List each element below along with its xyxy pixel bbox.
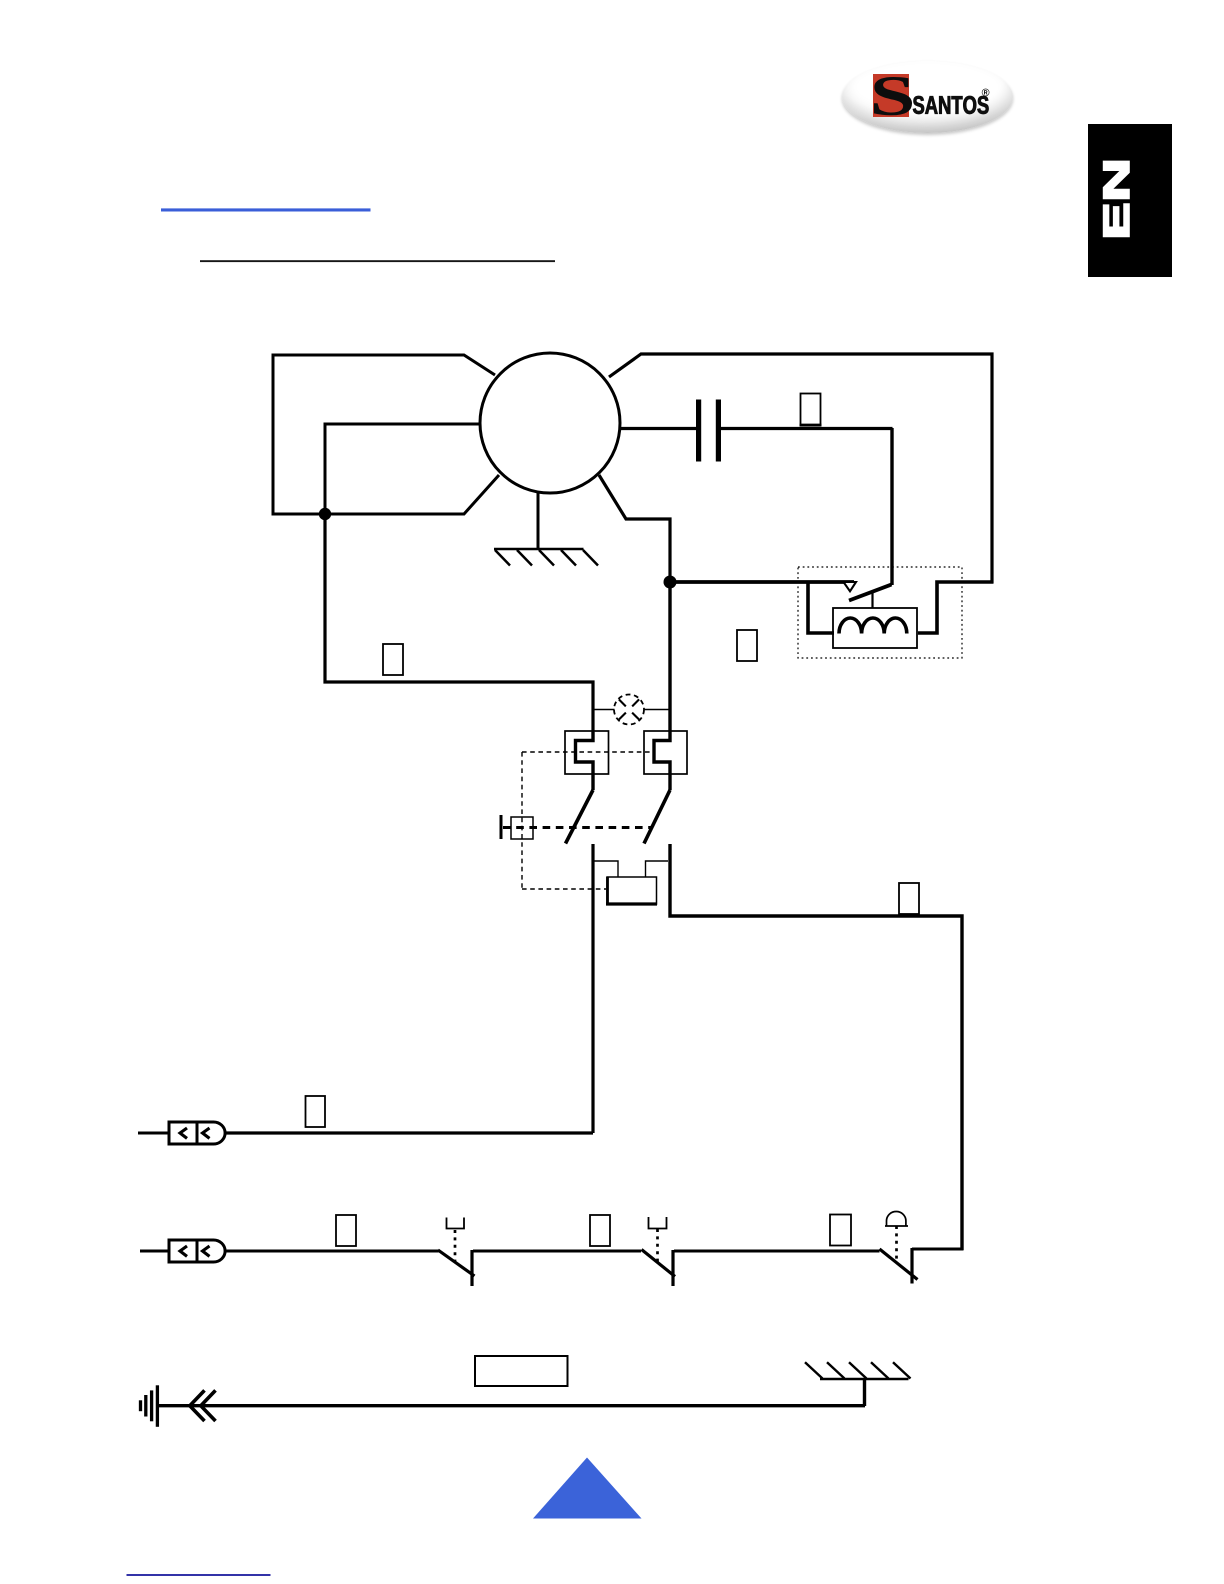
ground supply (left): [141, 1385, 158, 1427]
blue heading underline: [161, 208, 371, 211]
solenoid Y1 prong left: [594, 861, 618, 877]
wire row2 stub: [140, 1250, 169, 1253]
SANTOS logo: [842, 61, 1013, 133]
ground motor frame: [494, 549, 598, 566]
switch S5 push button: [885, 1212, 908, 1227]
relay coil winding: [839, 618, 907, 634]
EN tab letter E: [1104, 205, 1128, 236]
wire left trunk down: [591, 844, 594, 1133]
relay moving arm: [849, 585, 892, 601]
contact block S1 (left): [565, 731, 609, 774]
mechanical link dashed (thick): [503, 826, 651, 829]
connector chevrons row3: [190, 1390, 205, 1421]
wire relay coil feed left: [808, 582, 834, 633]
relay K1 dotted enclosure: [798, 567, 962, 658]
wire motor bottom-right to node B: [599, 475, 670, 582]
switch S5 arm: [880, 1249, 918, 1280]
mechanical link dashed (upper): [522, 752, 655, 889]
wire motor top-right to relay right side: [609, 354, 992, 583]
contact block S2 (right): [644, 731, 687, 774]
switch S4 arm: [642, 1250, 676, 1277]
switch S4 contact bar: [671, 1250, 674, 1286]
wire row2 segment a: [226, 1250, 439, 1253]
wire chassis stem: [863, 1379, 866, 1406]
mechanical actuator tick: [500, 815, 503, 839]
wire motor right brush to capacitor: [621, 427, 696, 430]
contact S1 notch path: [576, 732, 594, 790]
contact S2 notch path: [654, 582, 670, 790]
label box (relay): [737, 630, 757, 661]
wire node A to left contact: [325, 512, 593, 732]
label box (row3 wide): [475, 1356, 568, 1386]
wire capacitor to relay arm: [890, 428, 893, 585]
relay coil box: [833, 608, 917, 648]
label box (row2 a): [336, 1215, 356, 1246]
solenoid Y1 prong right: [646, 861, 669, 877]
switch S3 arm: [438, 1250, 475, 1276]
wire relay right loop: [918, 582, 994, 633]
switch S3 contact bar: [470, 1250, 473, 1286]
page nav blue triangle: [533, 1458, 642, 1519]
motor M1: [480, 353, 620, 493]
connector X1: [169, 1122, 225, 1144]
wire stator loop top-left: [273, 355, 499, 514]
logo big S: [874, 77, 912, 115]
EN tab letter N: [1104, 162, 1128, 198]
wire node B to relay contact: [670, 580, 854, 584]
label box (row2 c): [830, 1215, 851, 1246]
logo SANTOS wordmark: [913, 96, 924, 114]
connector X2: [169, 1240, 225, 1262]
label box (right wire): [899, 883, 919, 914]
footer link underline: [127, 1574, 271, 1576]
node A: [319, 508, 331, 520]
switch arm S1: [566, 790, 594, 844]
wire row2 right corner: [912, 1248, 964, 1251]
lamp H1: [594, 695, 669, 725]
wire capacitor to relay branch: [721, 427, 893, 430]
logo registered mark: [982, 89, 990, 97]
black heading underline: [200, 260, 555, 262]
relay fixed contact arrowhead: [844, 582, 857, 591]
wire right trunk down to row2: [670, 844, 962, 1250]
mechanical link dashed square: [511, 817, 533, 839]
switch S5 contact bar: [910, 1248, 913, 1284]
label box (capacitor): [801, 394, 821, 426]
EN language tab: [1088, 124, 1172, 277]
switch S4 actuator cup: [649, 1217, 667, 1229]
switch S5 actuator dotted: [895, 1226, 898, 1261]
capacitor C1: [696, 400, 701, 462]
wire row1 stub: [138, 1132, 169, 1135]
wire row2 segment b: [473, 1250, 641, 1253]
switch S3 actuator dotted: [454, 1230, 457, 1263]
switch arm S2: [644, 790, 670, 844]
switch S3 actuator cup: [447, 1218, 465, 1229]
wire brush left: [325, 424, 480, 514]
wire row3: [158, 1404, 865, 1407]
label box (left wire): [383, 644, 403, 675]
label box (row2 b): [590, 1215, 610, 1246]
label box (row1): [306, 1096, 326, 1127]
node B: [664, 576, 677, 589]
wire row2 segment c: [674, 1250, 880, 1253]
ground chassis (right): [805, 1362, 911, 1379]
wire motor frame stem: [537, 492, 540, 549]
solenoid Y1 body: [607, 877, 657, 904]
wire row1: [226, 1131, 593, 1134]
relay arm link to coil: [871, 592, 873, 608]
switch S4 actuator dotted: [656, 1229, 659, 1262]
